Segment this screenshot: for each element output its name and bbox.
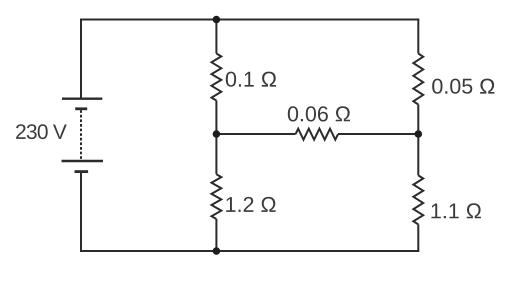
wire top rail xyxy=(80,19,419,21)
resistor 1.1 ohm xyxy=(413,175,423,224)
battery V1 dotted cell continuation xyxy=(80,110,82,160)
wire middle horizontal right xyxy=(338,133,418,135)
label 0.05 ohm xyxy=(432,79,494,94)
label 0.1 ohm xyxy=(226,72,276,87)
battery V1 short plate bottom xyxy=(75,170,89,173)
wire bottom rail xyxy=(80,250,419,252)
resistor 0.05 ohm xyxy=(413,54,423,105)
wire right rail center xyxy=(417,105,419,176)
label 230 V xyxy=(16,124,67,139)
resistor 0.06 ohm xyxy=(296,129,339,140)
wire left rail upper (to battery) xyxy=(80,20,82,99)
wire left rail lower (from battery) xyxy=(80,172,82,251)
wire middle branch lower xyxy=(215,219,217,251)
wire right rail lower xyxy=(417,224,419,251)
battery V1 long plate bottom xyxy=(62,160,104,162)
battery V1 short plate top xyxy=(75,107,87,110)
wire right rail upper xyxy=(417,20,419,54)
resistor 0.1 ohm xyxy=(212,54,222,101)
battery V1 long plate top xyxy=(62,97,102,99)
label 1.1 ohm xyxy=(432,203,481,218)
wire middle horizontal left xyxy=(216,133,295,135)
resistor 1.2 ohm xyxy=(212,174,222,219)
node junction middle left xyxy=(213,130,221,138)
node junction middle right xyxy=(415,130,423,138)
wire middle branch upper xyxy=(215,20,217,54)
wire middle branch center xyxy=(215,101,217,175)
label 1.2 ohm xyxy=(226,197,275,212)
node junction top middle xyxy=(213,16,221,24)
label 0.06 ohm xyxy=(288,106,350,121)
node junction bottom middle xyxy=(213,247,221,255)
